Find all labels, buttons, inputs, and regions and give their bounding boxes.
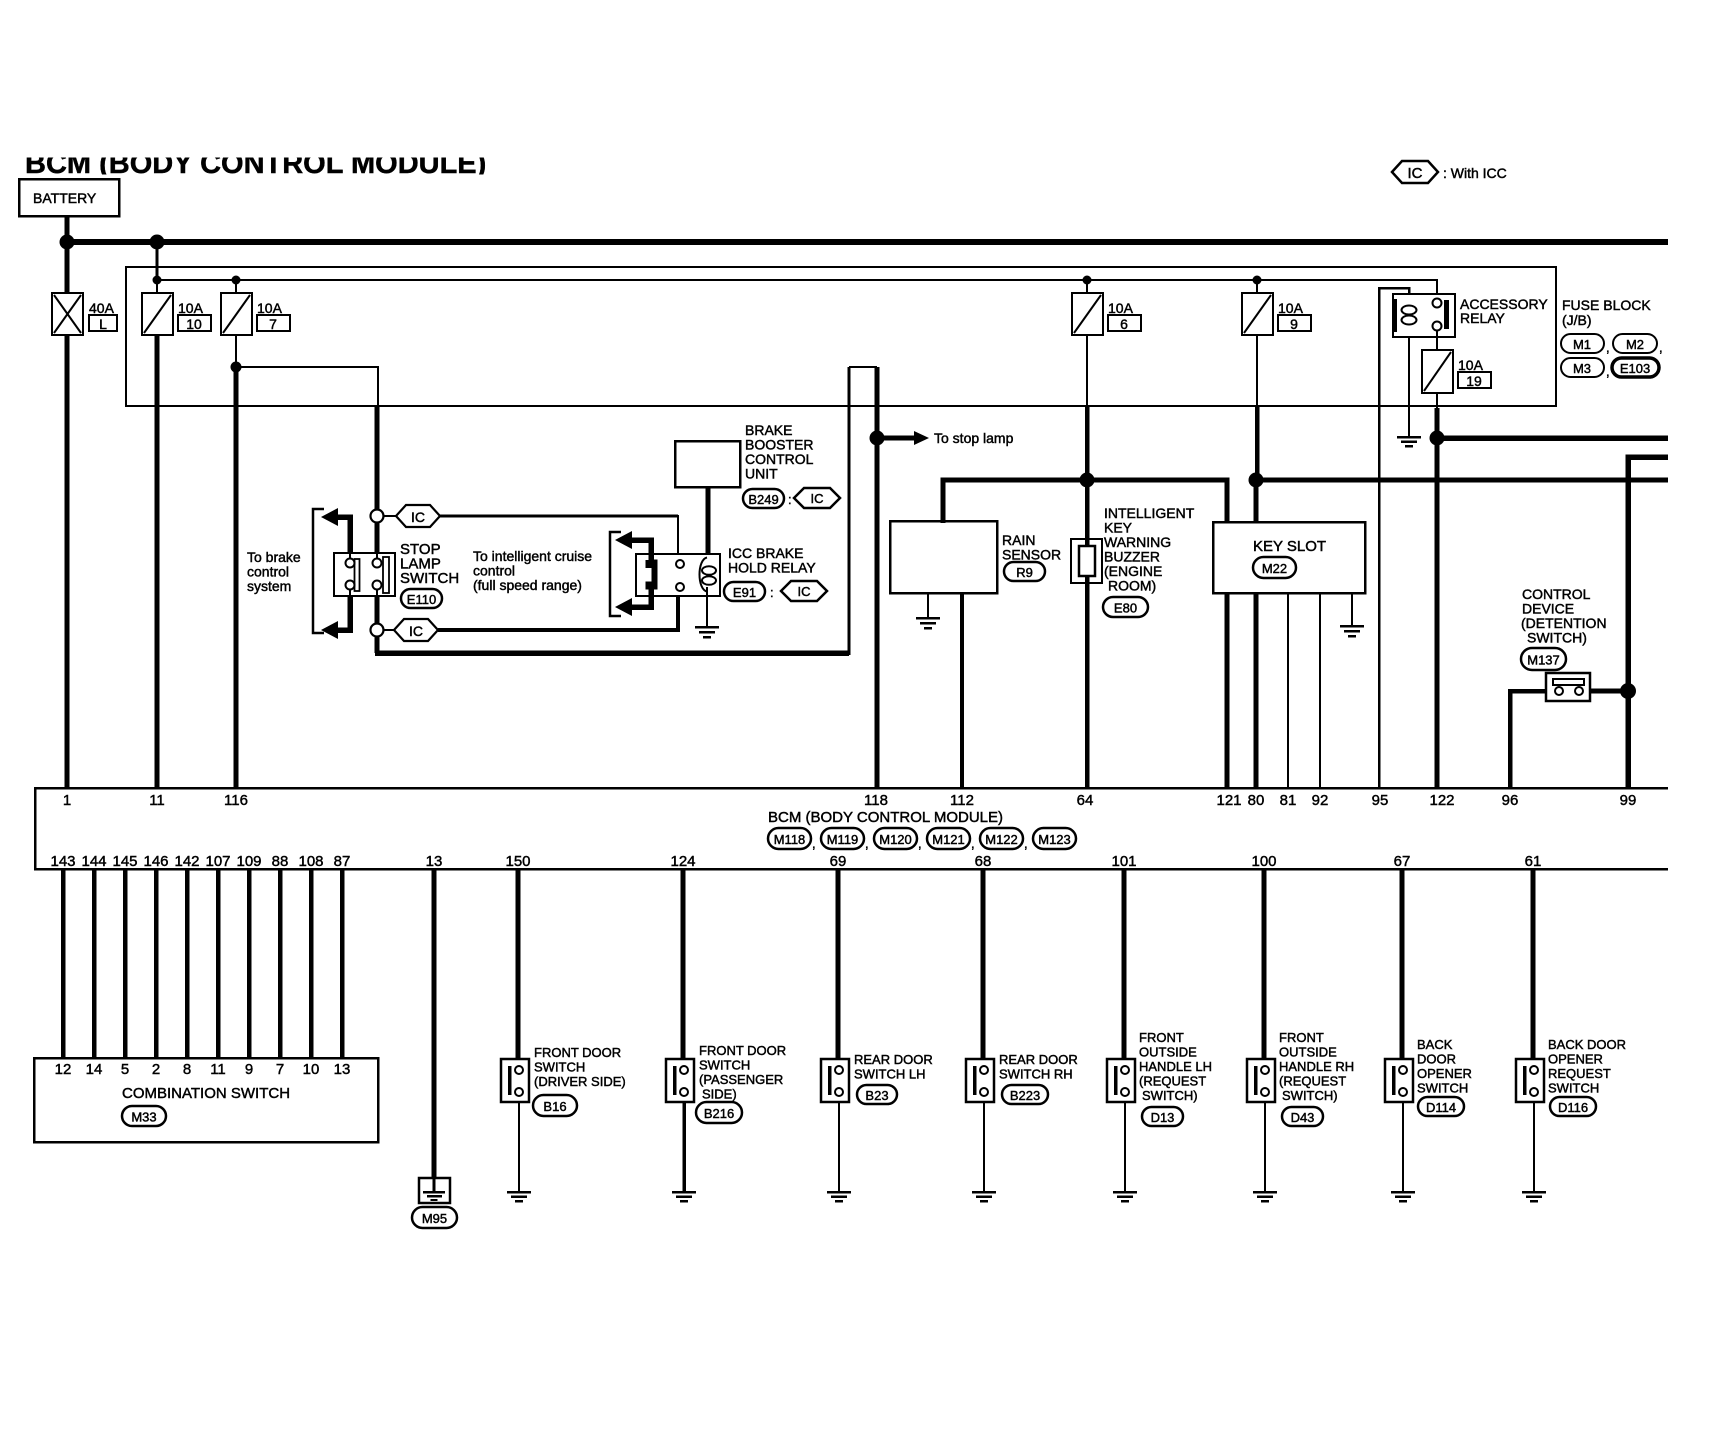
wire fuse 6 to buzzer and BCM pin 64	[1085, 406, 1090, 788]
label back door opener switch	[1417, 1037, 1472, 1096]
label BCM top pin numbers	[63, 792, 1637, 809]
label brake booster control unit	[745, 422, 814, 482]
node junction to stop lamp	[870, 431, 885, 446]
wire ICC relay arm lower arrow	[615, 587, 651, 616]
fuse 10A 10	[142, 293, 173, 335]
wire fuse 7 to BCM pin 116	[234, 367, 239, 788]
wire return top link	[849, 366, 877, 368]
svg-text:(REQUEST: (REQUEST	[1139, 1074, 1206, 1089]
wire upper IC loop	[440, 515, 678, 556]
svg-text:HANDLE LH: HANDLE LH	[1139, 1059, 1212, 1074]
svg-text:M2: M2	[1626, 337, 1644, 352]
label rear door switch LH	[854, 1052, 933, 1082]
svg-text:M3: M3	[1573, 361, 1591, 376]
svg-text:143: 143	[50, 853, 75, 870]
svg-text:(REQUEST: (REQUEST	[1279, 1074, 1346, 1089]
wire BCM 87 to combination switch	[340, 869, 345, 1058]
svg-text:BACK DOOR: BACK DOOR	[1548, 1037, 1626, 1052]
svg-text:69: 69	[830, 853, 847, 870]
svg-text:M122: M122	[985, 832, 1018, 847]
svg-text:145: 145	[112, 853, 137, 870]
node junction battery bus at fusible link	[60, 235, 75, 250]
ground D43	[1253, 1192, 1277, 1201]
value label 10A 6	[1108, 300, 1141, 332]
wire rain sensor to BCM pin 112	[960, 593, 964, 788]
front door switch passenger side B216	[666, 1059, 694, 1102]
svg-text:L: L	[99, 316, 107, 332]
svg-text:96: 96	[1502, 792, 1519, 809]
svg-text:SWITCH: SWITCH	[1548, 1081, 1599, 1096]
svg-text:FUSE BLOCK: FUSE BLOCK	[1562, 297, 1651, 313]
stop lamp switch E110	[334, 553, 395, 596]
svg-text:BATTERY: BATTERY	[33, 190, 97, 206]
wire brake booster unit to ICC relay coil	[706, 487, 711, 566]
connector E80	[1103, 597, 1148, 617]
node junction rail at fuse 9	[1253, 276, 1262, 285]
ground ICC relay	[695, 627, 719, 637]
label combination switch pin numbers	[55, 1061, 351, 1078]
rear door switch LH B23	[821, 1059, 849, 1102]
wire relay coil to ground	[1408, 337, 1410, 437]
svg-text:REAR DOOR: REAR DOOR	[999, 1052, 1078, 1067]
svg-text:E103: E103	[1620, 361, 1650, 376]
legend IC hexagon: With ICC	[1392, 161, 1507, 183]
node junction fuse 7 branch	[231, 362, 242, 373]
wire fuse 9 drop to powered rail	[1255, 406, 1260, 481]
wire BCM 146 to combination switch	[154, 869, 159, 1058]
svg-text:RELAY: RELAY	[1460, 310, 1506, 326]
svg-text:109: 109	[236, 853, 261, 870]
svg-text:OUTSIDE: OUTSIDE	[1139, 1045, 1197, 1060]
connector M119	[821, 828, 869, 851]
svg-text:124: 124	[670, 853, 695, 870]
wire return riser	[848, 367, 851, 655]
svg-text:M121: M121	[932, 832, 965, 847]
wire junction to BCM pin 122	[1435, 438, 1440, 788]
svg-text:SIDE): SIDE)	[702, 1087, 737, 1102]
ground rain sensor	[916, 618, 940, 628]
value label 10A 7	[257, 300, 290, 332]
wire D13 to ground	[1124, 1102, 1126, 1192]
svg-text:ROOM): ROOM)	[1108, 578, 1156, 594]
svg-text:SWITCH LH: SWITCH LH	[854, 1067, 926, 1082]
svg-text:DOOR: DOOR	[1417, 1052, 1456, 1067]
connector M122	[980, 828, 1028, 851]
svg-text:IC: IC	[1408, 165, 1423, 182]
wire BCM 145 to combination switch	[123, 869, 128, 1058]
svg-text:HANDLE RH: HANDLE RH	[1279, 1059, 1354, 1074]
label rear door switch RH	[999, 1052, 1078, 1082]
bracket to intelligent cruise control	[610, 532, 621, 616]
svg-text:9: 9	[1290, 316, 1298, 332]
svg-text:14: 14	[86, 1061, 103, 1078]
svg-text:M123: M123	[1038, 832, 1071, 847]
svg-text:99: 99	[1620, 792, 1637, 809]
wire rail to fuse 7	[235, 280, 237, 293]
title BCM (BODY CONTROL MODULE) clipped at page top	[25, 148, 486, 180]
svg-text:9: 9	[245, 1061, 253, 1078]
connector circle lower stop lamp line	[371, 624, 384, 637]
svg-text:M137: M137	[1527, 653, 1560, 668]
connector M3	[1561, 358, 1610, 379]
connector D43	[1282, 1107, 1323, 1126]
svg-text:11: 11	[149, 792, 165, 809]
wire BCM 88 to combination switch	[278, 869, 283, 1058]
svg-text:BACK: BACK	[1417, 1037, 1453, 1052]
svg-text:IC: IC	[811, 491, 824, 506]
node junction fuse 9 to key slot	[1249, 473, 1264, 488]
ground B23	[827, 1192, 851, 1201]
wire battery supply bus	[64, 239, 1668, 245]
svg-text:M1: M1	[1573, 337, 1591, 352]
value label 10A 10	[178, 300, 211, 332]
wire stop lamp switch main feed	[375, 406, 380, 553]
svg-text:E80: E80	[1114, 601, 1137, 616]
svg-text:87: 87	[334, 853, 351, 870]
wire ICC relay arm upper arrow	[615, 531, 651, 562]
svg-text:HOLD RELAY: HOLD RELAY	[728, 560, 816, 576]
wire rail to fuse 9	[1256, 280, 1258, 293]
wire BCM 67 to back door opener switch	[1400, 869, 1405, 1060]
svg-text:10A: 10A	[1458, 357, 1484, 373]
svg-text:D114: D114	[1426, 1100, 1456, 1115]
label ICC brake hold relay	[728, 545, 816, 576]
svg-text:10A: 10A	[257, 300, 283, 316]
wire relay contact to fuse 19	[1436, 330, 1438, 352]
back door opener request switch D116	[1516, 1059, 1544, 1102]
wire B223 to ground	[983, 1102, 985, 1192]
svg-text:D116: D116	[1558, 1100, 1588, 1115]
connector E91 with IC	[724, 581, 827, 601]
wire key slot pin to BCM pin 121	[1225, 593, 1230, 788]
svg-text:B16: B16	[543, 1099, 566, 1114]
svg-text:5: 5	[121, 1061, 129, 1078]
svg-text:R9: R9	[1016, 565, 1033, 580]
svg-text:95: 95	[1372, 792, 1389, 809]
svg-text:10A: 10A	[178, 300, 204, 316]
rear door switch RH B223	[966, 1059, 994, 1102]
wire fuse 9 down inside J/B	[1256, 335, 1258, 406]
svg-text:FRONT: FRONT	[1279, 1030, 1324, 1045]
svg-text:122: 122	[1429, 792, 1454, 809]
fuse 10A 7	[221, 293, 252, 335]
connector M22	[1253, 557, 1296, 578]
wire stop lamp return run	[375, 650, 849, 656]
node junction buzzer feed	[1080, 473, 1095, 488]
wire to BCM pin 118	[875, 367, 880, 788]
ICC brake hold relay E91	[636, 554, 720, 596]
ground M95 boxed	[419, 1178, 450, 1203]
svg-text:B249: B249	[748, 492, 778, 507]
wire D114 to ground	[1402, 1102, 1404, 1192]
svg-text:19: 19	[1466, 373, 1482, 389]
svg-text:61: 61	[1525, 853, 1542, 870]
svg-text:B23: B23	[865, 1088, 888, 1103]
connector M33	[122, 1106, 166, 1126]
svg-text:REAR DOOR: REAR DOOR	[854, 1052, 933, 1067]
wire BCM 69 to rear door switch LH	[836, 869, 841, 1060]
svg-text:COMBINATION SWITCH: COMBINATION SWITCH	[122, 1085, 290, 1102]
wire BCM 61 to back door opener request switch	[1531, 869, 1536, 1060]
front door switch driver side B16	[501, 1059, 529, 1102]
svg-text:D43: D43	[1291, 1110, 1315, 1125]
svg-text:12: 12	[55, 1061, 72, 1078]
label front outside handle RH	[1279, 1030, 1354, 1103]
svg-text:E91: E91	[733, 585, 756, 600]
wire BCM 109 to combination switch	[247, 869, 252, 1058]
connector M95	[412, 1207, 457, 1228]
back door opener switch D114	[1385, 1059, 1413, 1102]
wire BCM 144 to combination switch	[92, 869, 97, 1058]
svg-text:D13: D13	[1151, 1110, 1175, 1125]
wire key slot to ground	[1351, 593, 1353, 626]
label control device detention switch	[1521, 586, 1607, 646]
svg-text:OUTSIDE: OUTSIDE	[1279, 1045, 1337, 1060]
wire BCM 124 to front door switch passenger	[681, 869, 686, 1060]
svg-text:81: 81	[1280, 792, 1297, 809]
node junction rail at fuse 10	[153, 276, 162, 285]
svg-text:142: 142	[174, 853, 199, 870]
connector B23	[857, 1085, 897, 1104]
svg-text:SWITCH): SWITCH)	[1282, 1088, 1338, 1103]
svg-text:92: 92	[1312, 792, 1329, 809]
label to brake control system	[247, 549, 301, 594]
connector B249 with IC	[743, 488, 840, 508]
svg-text:OPENER: OPENER	[1548, 1052, 1603, 1067]
wire right elbow to BCM pin 99	[1628, 457, 1668, 788]
wire detention switch to pin 99 riser	[1590, 689, 1628, 694]
wire accessory relay coil to BCM pin 95	[1379, 288, 1409, 788]
svg-text:system: system	[247, 578, 291, 594]
connector M121	[927, 828, 975, 851]
svg-text:IC: IC	[411, 509, 425, 525]
svg-text:IC: IC	[409, 623, 423, 639]
svg-text:(PASSENGER: (PASSENGER	[699, 1072, 783, 1087]
connector M137	[1521, 648, 1566, 670]
svg-text:(full speed range): (full speed range)	[473, 577, 582, 593]
label rain sensor	[1002, 532, 1061, 563]
wire rail to fuse 6	[1086, 280, 1088, 293]
value label 10A 19	[1458, 357, 1491, 389]
wire bus drop to fuse block feed	[156, 242, 159, 280]
svg-text:SWITCH): SWITCH)	[1142, 1088, 1198, 1103]
svg-text:112: 112	[950, 792, 974, 809]
svg-text:,: ,	[918, 836, 922, 851]
svg-text:11: 11	[210, 1061, 226, 1078]
svg-text:,: ,	[812, 836, 816, 851]
label fuse block J/B	[1562, 297, 1651, 328]
svg-text:2: 2	[152, 1061, 160, 1078]
svg-text:,: ,	[865, 836, 869, 851]
svg-text:M120: M120	[879, 832, 912, 847]
svg-text:SENSOR: SENSOR	[1002, 547, 1061, 563]
wire branch to stop lamp switch	[236, 367, 378, 407]
label front door switch passenger side	[699, 1043, 786, 1102]
wire stop lamp switch upper arrow to brake control	[321, 508, 350, 553]
front outside handle RH request switch D43	[1247, 1059, 1275, 1102]
combination switch M33	[34, 1058, 378, 1142]
svg-text:121: 121	[1216, 792, 1241, 809]
wire BCM 143 to combination switch	[61, 869, 66, 1058]
svg-text:SWITCH: SWITCH	[1417, 1081, 1468, 1096]
wire BCM 142 to combination switch	[185, 869, 190, 1058]
connector D114	[1418, 1097, 1464, 1116]
wire stop lamp switch to loop return	[375, 596, 380, 653]
wire fuse 19 to junction	[1436, 393, 1438, 438]
svg-text:,: ,	[1606, 364, 1610, 379]
connector D13	[1142, 1107, 1183, 1126]
svg-text::: :	[788, 492, 792, 507]
wire key slot pin to BCM pin 80	[1254, 593, 1259, 788]
wire battery stub	[65, 216, 70, 242]
label stop lamp switch	[400, 541, 459, 587]
fusible link 40A L	[52, 293, 83, 335]
svg-text:8: 8	[183, 1061, 191, 1078]
wire to stop lamp arrow	[877, 430, 1014, 446]
label combination switch	[122, 1085, 290, 1102]
svg-text:118: 118	[864, 792, 888, 809]
fuse 10A 19	[1422, 350, 1453, 393]
svg-text:,: ,	[1024, 836, 1028, 851]
IC hexagon lower	[384, 619, 438, 641]
accessory relay U	[1393, 294, 1455, 337]
svg-text:10: 10	[303, 1061, 320, 1078]
svg-text:M118: M118	[774, 832, 806, 847]
connector E103	[1612, 358, 1659, 377]
wire fuse 7 down	[235, 335, 237, 367]
fuse 10A 9	[1242, 293, 1273, 335]
ground D114	[1391, 1192, 1415, 1201]
key slot M22	[1213, 522, 1365, 593]
svg-text:: With ICC: : With ICC	[1443, 165, 1507, 181]
wire BCM 68 to rear door switch RH	[981, 869, 986, 1060]
node junction detention switch on pin 99 riser	[1620, 683, 1636, 699]
svg-text:IC: IC	[798, 584, 811, 599]
wire ICC relay coil to ground	[706, 587, 708, 627]
wire stop lamp switch lower arrow to brake control	[321, 596, 350, 639]
detention switch M137	[1546, 673, 1590, 701]
wire rain sensor to ground	[927, 593, 929, 618]
wire fuse feed rail inside J/B	[157, 280, 1437, 303]
battery	[19, 179, 119, 216]
wire powered rail right segment	[1256, 478, 1668, 483]
wire rail into key slot pin	[1254, 480, 1259, 523]
label BCM bottom pin numbers	[50, 853, 1541, 870]
svg-text:10A: 10A	[1108, 300, 1134, 316]
svg-text:144: 144	[81, 853, 106, 870]
label front outside handle LH	[1139, 1030, 1212, 1103]
BCM body control module box	[35, 788, 1668, 869]
svg-text:13: 13	[426, 853, 443, 870]
svg-text:80: 80	[1248, 792, 1265, 809]
brake booster control unit	[675, 441, 740, 487]
svg-text:(J/B): (J/B)	[1562, 312, 1592, 328]
wire B16 to ground	[518, 1102, 520, 1192]
svg-text:150: 150	[505, 853, 530, 870]
svg-text:FRONT DOOR: FRONT DOOR	[699, 1043, 786, 1058]
ground B16	[507, 1192, 531, 1201]
svg-text:(DRIVER SIDE): (DRIVER SIDE)	[534, 1074, 626, 1089]
connector B216	[696, 1102, 742, 1123]
svg-text:6: 6	[1120, 316, 1128, 332]
svg-text:B223: B223	[1010, 1088, 1040, 1103]
svg-text:68: 68	[975, 853, 992, 870]
bracket to brake control system	[313, 509, 324, 633]
svg-text:108: 108	[298, 853, 323, 870]
svg-text:OPENER: OPENER	[1417, 1066, 1472, 1081]
svg-text:FRONT: FRONT	[1139, 1030, 1184, 1045]
svg-text:10: 10	[186, 316, 202, 332]
buzzer intelligent key warning	[1071, 539, 1102, 583]
node junction battery bus at fuse feed	[150, 235, 165, 250]
ground D13	[1113, 1192, 1137, 1201]
svg-text:SWITCH: SWITCH	[400, 570, 459, 587]
wire BCM 13 to M95 ground	[432, 869, 437, 1178]
svg-text:,: ,	[971, 836, 975, 851]
svg-text:100: 100	[1251, 853, 1276, 870]
svg-text:M22: M22	[1262, 561, 1287, 576]
node junction rail at fuse 7	[232, 276, 241, 285]
svg-text:,: ,	[1659, 340, 1663, 355]
fuse block (J/B) outline	[126, 267, 1556, 406]
wire bus to fusible link 40A	[65, 242, 70, 293]
svg-text:1: 1	[63, 792, 71, 809]
svg-text:SWITCH: SWITCH	[534, 1060, 585, 1075]
svg-text:40A: 40A	[89, 300, 115, 316]
svg-text:SWITCH): SWITCH)	[1527, 630, 1587, 646]
connector M118	[768, 828, 816, 851]
connector B16	[533, 1095, 577, 1116]
front outside handle LH request switch D13	[1107, 1059, 1135, 1102]
svg-text:M119: M119	[827, 832, 859, 847]
wire BCM 100 to front outside handle RH	[1262, 869, 1267, 1060]
ground B223	[972, 1192, 996, 1201]
connector circle upper stop lamp line	[371, 510, 384, 523]
wire key slot pin to BCM pin 81	[1287, 593, 1289, 788]
wire D116 to ground	[1533, 1102, 1535, 1192]
svg-text:7: 7	[276, 1061, 284, 1078]
svg-text:7: 7	[269, 316, 277, 332]
connector M2	[1613, 334, 1663, 355]
label BCM name	[768, 809, 1003, 826]
svg-text:KEY SLOT: KEY SLOT	[1253, 538, 1326, 555]
node junction rail at fuse 6	[1083, 276, 1092, 285]
connector M123	[1033, 828, 1076, 849]
wire BCM 101 to front outside handle LH	[1122, 869, 1127, 1060]
svg-text:To stop lamp: To stop lamp	[934, 430, 1014, 446]
value label 10A 9	[1278, 300, 1311, 332]
fuse 10A 6	[1072, 293, 1103, 335]
wire BCM 150 to front door switch driver	[516, 869, 521, 1060]
ground key slot	[1340, 626, 1364, 636]
wire BCM 108 to combination switch	[309, 869, 314, 1058]
wire B23 to ground	[838, 1102, 840, 1192]
wire detention switch to BCM pin 96	[1510, 691, 1546, 788]
svg-text:10A: 10A	[1278, 300, 1304, 316]
svg-text:88: 88	[272, 853, 289, 870]
label to intelligent cruise control	[473, 548, 592, 593]
svg-text:64: 64	[1077, 792, 1094, 809]
svg-text::: :	[770, 585, 774, 600]
svg-text:SWITCH RH: SWITCH RH	[999, 1067, 1073, 1082]
wire fuse 6 down inside J/B	[1086, 335, 1088, 406]
svg-text:FRONT DOOR: FRONT DOOR	[534, 1045, 621, 1060]
svg-text:107: 107	[205, 853, 230, 870]
label intelligent key warning buzzer	[1104, 505, 1195, 594]
ground D116	[1522, 1192, 1546, 1201]
svg-text:M33: M33	[131, 1110, 156, 1125]
svg-text:UNIT: UNIT	[745, 466, 778, 482]
